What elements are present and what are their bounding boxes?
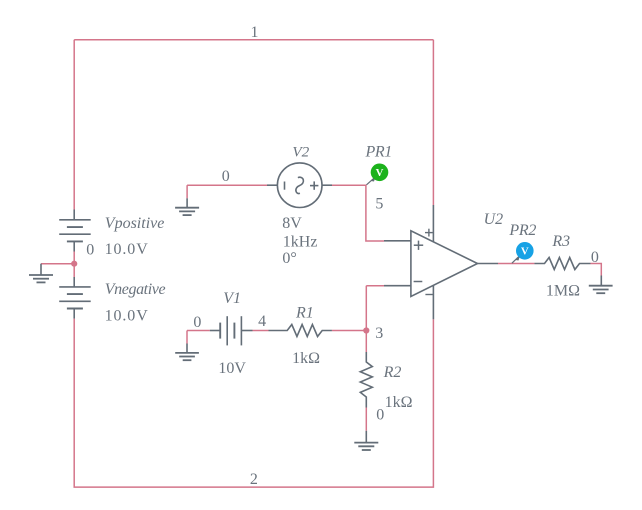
svg-text:1MΩ: 1MΩ xyxy=(546,283,580,300)
svg-text:1kΩ: 1kΩ xyxy=(385,394,413,411)
svg-text:1kΩ: 1kΩ xyxy=(292,350,320,367)
svg-text:R3: R3 xyxy=(551,233,570,250)
svg-text:Vpositive: Vpositive xyxy=(105,215,165,232)
svg-text:0: 0 xyxy=(193,314,201,331)
svg-text:2: 2 xyxy=(250,471,258,488)
svg-text:V1: V1 xyxy=(223,290,241,307)
svg-text:4: 4 xyxy=(258,313,266,330)
svg-text:0: 0 xyxy=(86,242,94,259)
svg-text:U2: U2 xyxy=(484,211,504,228)
svg-text:3: 3 xyxy=(375,325,383,342)
svg-text:1: 1 xyxy=(251,24,259,41)
svg-text:R1: R1 xyxy=(295,304,314,321)
svg-text:0: 0 xyxy=(376,407,384,424)
svg-text:8V: 8V xyxy=(282,215,302,232)
svg-text:0: 0 xyxy=(222,168,230,185)
svg-text:10.0V: 10.0V xyxy=(105,308,149,325)
svg-text:10.0V: 10.0V xyxy=(105,241,149,258)
svg-text:0°: 0° xyxy=(282,250,296,267)
svg-text:Vnegative: Vnegative xyxy=(105,281,166,298)
svg-text:PR2: PR2 xyxy=(508,222,536,239)
svg-text:5: 5 xyxy=(375,196,383,213)
svg-text:1kHz: 1kHz xyxy=(283,233,318,250)
svg-text:10V: 10V xyxy=(218,360,246,377)
svg-text:R2: R2 xyxy=(383,364,402,381)
svg-text:V: V xyxy=(521,246,529,258)
svg-text:V2: V2 xyxy=(292,144,309,161)
svg-text:PR1: PR1 xyxy=(365,144,392,161)
svg-text:V: V xyxy=(376,167,384,179)
svg-text:0: 0 xyxy=(591,249,599,266)
